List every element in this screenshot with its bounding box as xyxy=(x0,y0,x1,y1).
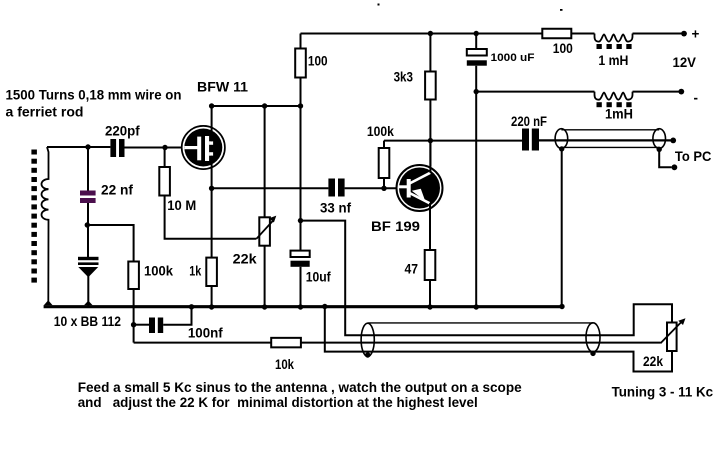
wire top supply rail left segment xyxy=(301,33,543,35)
varactor diode D1 capacitor plate 1 xyxy=(78,257,99,260)
capacitor C5 10uf bottom plate xyxy=(291,261,310,267)
wire R4 bottom to drain rail xyxy=(300,78,302,107)
wire minus rail left segment xyxy=(476,91,594,93)
svg-text:22k: 22k xyxy=(233,251,257,267)
wire top supply rail right segment xyxy=(633,33,685,35)
coax1 left end ellipse xyxy=(555,129,568,149)
node ground at antenna coil (fillet) xyxy=(44,300,53,305)
inductor L2 1 mH (plus lead choke) xyxy=(595,34,633,42)
svg-text:Feed a small 5 Kc sinus to the: Feed a small 5 Kc sinus to the antenna ,… xyxy=(78,379,522,395)
wire C3 to ground rail riser xyxy=(163,307,191,325)
ferrite rod (dashed bar) xyxy=(31,150,37,155)
wire antenna node down to C2 xyxy=(87,147,89,191)
transistor Q2 BF 199 emitter stroke (white) xyxy=(410,193,430,203)
coax2 right end ellipse xyxy=(586,323,600,352)
svg-text:22k: 22k xyxy=(643,353,663,369)
svg-text:Tuning 3 - 11 Kc: Tuning 3 - 11 Kc xyxy=(612,383,714,399)
node antenna top / C2 branch xyxy=(85,144,90,149)
wire top rail down to R6 xyxy=(429,34,431,72)
trimmer RV2 22k tuning pot body xyxy=(667,323,677,352)
transistor Q1 BFW 11 channel bar (white) xyxy=(205,136,209,161)
svg-text:1 mH: 1 mH xyxy=(598,52,628,68)
node minus rail at C6 branch xyxy=(474,89,479,94)
node tap line / 10uf top xyxy=(298,218,303,223)
transistor Q1 BFW 11 drain stub (white) xyxy=(209,141,213,145)
wire gate node down to R1 xyxy=(164,148,166,168)
wire R3 bottom to ground rail xyxy=(211,286,213,307)
resistor R1 10 M (gate leak) xyxy=(159,167,170,196)
speck artifact 1 xyxy=(378,4,380,6)
capacitor C1 220pf right plate xyxy=(119,139,125,157)
node ground at 10uf xyxy=(298,304,303,309)
wire R1 bottom to trimmer wiper xyxy=(165,196,257,239)
transistor Q2 BF 199 collector stroke (white) xyxy=(410,173,431,184)
coax1 shield top line xyxy=(561,129,659,131)
resistor R2 100k (varactor bias bleed) xyxy=(128,262,139,290)
node drain rail at R4 xyxy=(298,103,303,108)
node coax1 right shield xyxy=(657,147,662,152)
svg-text:220pf: 220pf xyxy=(105,123,140,139)
node top rail at 3k3 branch xyxy=(428,31,433,36)
capacitor C4 33 nf right plate xyxy=(338,179,345,197)
coax2 shield bottom line / ground into tuning box xyxy=(325,307,672,372)
wire R5 top to collector feed line xyxy=(383,141,385,148)
svg-text:100: 100 xyxy=(308,53,328,69)
wire RV1 bottom to ground rail xyxy=(264,246,266,307)
transistor Q1 BFW 11 body disk xyxy=(184,129,222,167)
node ground at R7 xyxy=(427,304,432,309)
wire BFW11 drain rail xyxy=(212,105,301,107)
transistor Q2 BF 199 body disk xyxy=(399,168,440,209)
trimmer RV1 wiper arrowhead xyxy=(269,216,276,223)
wire R7 bottom to ground rail xyxy=(429,280,431,307)
node Q1 source / R3 top xyxy=(209,186,214,191)
node drain rail at trimmer branch xyxy=(262,103,267,108)
inductor L3 dashed core xyxy=(597,102,602,107)
capacitor C1 220pf left plate xyxy=(110,139,116,157)
capacitor C2 22 nf bottom plate xyxy=(80,198,96,203)
wire minus rail right segment xyxy=(633,91,682,93)
speck artifact 2 xyxy=(560,9,563,11)
node ground rail at 100nf riser xyxy=(189,304,194,309)
svg-text:12V: 12V xyxy=(673,54,697,70)
resistor R9 10k (feedback to tuning pot) xyxy=(271,338,301,348)
wire antenna top to 220pf xyxy=(47,146,110,148)
varactor diode D1 capacitor plate 2 xyxy=(78,262,99,265)
transistor Q1 BFW 11 outer circle xyxy=(182,126,225,169)
wire varactor node down to D1 xyxy=(87,225,89,257)
node ground at R3 xyxy=(209,304,214,309)
antenna coil L1 1500 turns xyxy=(41,147,48,305)
svg-text:1500 Turns 0,18 mm wire on: 1500 Turns 0,18 mm wire on xyxy=(6,87,182,103)
capacitor C7 220 nF left plate xyxy=(522,129,529,151)
wire Q1 drain lead xyxy=(211,106,213,141)
svg-text:BFW 11: BFW 11 xyxy=(197,79,248,95)
node ground rail right end xyxy=(559,304,564,309)
trimmer RV1 22k body xyxy=(259,217,270,245)
resistor R3 1k (source resistor) xyxy=(206,258,217,286)
capacitor C6 1000 uF negative plate xyxy=(467,60,487,65)
wire from top rail to C6 xyxy=(475,34,477,50)
capacitor C4 33 nf left plate xyxy=(328,179,335,197)
wire varactor node to 100k left xyxy=(88,225,134,262)
node top rail at C6 xyxy=(474,31,479,36)
transistor Q2 BF 199 base lead (white) xyxy=(399,185,407,188)
capacitor C7 220 nF right plate xyxy=(532,129,539,151)
svg-text:100k: 100k xyxy=(367,123,394,139)
capacitor C6 1000 uF positive plate xyxy=(467,49,487,56)
resistor R5 100k (base bias) xyxy=(379,148,390,178)
node 100nf left xyxy=(131,322,136,327)
capacitor C3 100nf right plate xyxy=(158,318,163,334)
svg-text:10k: 10k xyxy=(275,356,294,372)
wire top supply rail mid segment xyxy=(571,33,594,35)
coax1 right end ellipse xyxy=(653,129,666,149)
wire tap to coax2 inner 1 and tuning box top xyxy=(301,221,673,336)
terminal plus 12V xyxy=(681,31,687,37)
wire coax1 right shield to PC ground xyxy=(659,149,671,167)
svg-text:220 nF: 220 nF xyxy=(511,113,547,129)
capacitor C2 22 nf top plate xyxy=(80,191,96,196)
wire base node up to R5 xyxy=(383,178,385,188)
svg-text:10 x BB 112: 10 x BB 112 xyxy=(54,313,121,329)
resistor R7 47 (emitter) xyxy=(425,250,436,280)
svg-text:1000 uF: 1000 uF xyxy=(491,52,535,64)
wire from C6 down to ground rail xyxy=(475,66,477,307)
node ground at RV1 xyxy=(262,304,267,309)
wire R2 bottom through rail to 100nf node xyxy=(133,289,135,343)
transistor Q1 BFW 11 source stub (white) xyxy=(209,152,213,156)
wire Q2 emitter lead xyxy=(429,203,431,250)
node ground at varactor (fillet) xyxy=(84,301,93,306)
wire Q1 source down to R3 xyxy=(211,188,213,257)
wire 100nf node to 10k xyxy=(134,342,272,344)
wire 10uf top lead xyxy=(300,221,302,251)
wire Q1 source lead xyxy=(211,156,213,189)
wire drain rail down to RV1 top xyxy=(264,106,266,217)
svg-text:10uf: 10uf xyxy=(306,269,331,285)
wire ground rail xyxy=(44,305,562,308)
node ground at C6 line xyxy=(474,304,479,309)
svg-text:To PC: To PC xyxy=(675,148,712,164)
transistor Q2 BF 199 emitter arrowhead (white) xyxy=(412,189,426,202)
transistor Q1 BFW 11 gate lead (white) xyxy=(185,146,198,149)
node coax2 right shield xyxy=(590,351,595,356)
resistor R4 100 (BFW11 drain load) xyxy=(295,49,306,78)
wire 100nf node to C3 xyxy=(134,324,149,326)
terminal To PC signal xyxy=(670,138,676,144)
transistor Q1 BFW 11 gate bar (white) xyxy=(197,137,201,161)
wire top rail corner down to R4 xyxy=(300,34,302,49)
node varactor / 100k junction xyxy=(85,222,90,227)
wire C2 to varactor node xyxy=(87,203,89,225)
node Q2 base / R5 bottom xyxy=(381,186,386,191)
svg-text:47: 47 xyxy=(405,261,419,277)
trimmer RV1 wiper arrow diagonal xyxy=(256,220,273,239)
svg-text:a ferriet rod: a ferriet rod xyxy=(6,104,84,120)
svg-text:+: + xyxy=(692,27,700,42)
resistor R6 3k3 (BF199 collector load) xyxy=(425,72,436,100)
wire D1 to ground rail xyxy=(87,276,89,307)
inductor L2 dashed core xyxy=(597,44,602,49)
wire R5 to Q2 collector to C7 xyxy=(384,140,523,142)
resistor R8 100 (supply filter) xyxy=(542,29,571,39)
coax2 left end ellipse xyxy=(361,323,374,356)
svg-text:10 M: 10 M xyxy=(167,197,196,213)
terminal To PC ground xyxy=(672,164,678,170)
svg-text:1k: 1k xyxy=(189,263,201,279)
svg-text:100k: 100k xyxy=(144,262,173,278)
inductor L3 1mH (minus lead choke) xyxy=(595,92,633,100)
varactor diode D1 triangle xyxy=(78,267,98,277)
wire Q1 source row to C4 xyxy=(212,187,329,189)
transistor Q2 BF 199 outer circle xyxy=(397,165,443,211)
node coax1 left shield xyxy=(559,146,564,151)
wire R6 bottom to BF199 collector xyxy=(429,100,431,167)
terminal minus 12V xyxy=(678,89,684,95)
wire drain rail down the tap line xyxy=(300,106,302,221)
capacitor C5 10uf top plate xyxy=(291,251,310,257)
wire C4 to Q2 base xyxy=(345,187,398,189)
svg-text:and adjust the 22 K for min: and adjust the 22 K for minimal distorti… xyxy=(78,394,478,410)
node coax2 left shield xyxy=(365,352,370,357)
wire 10uf bottom to ground rail xyxy=(300,267,302,307)
node drain rail left at BFW11 drain xyxy=(209,103,214,108)
wire coax1 left shield to ground rail end xyxy=(561,149,563,307)
wire 10k to tuning pot wiper (coax inner 2) xyxy=(301,342,661,344)
wire 220pf to BFW11 gate xyxy=(125,147,184,149)
node Q2 collector junction xyxy=(428,138,433,143)
coax2 shield top line xyxy=(368,322,593,324)
svg-text:-: - xyxy=(694,91,699,106)
svg-text:BF 199: BF 199 xyxy=(371,218,420,234)
svg-text:100: 100 xyxy=(553,40,573,56)
trimmer RV2 wiper diagonal xyxy=(661,321,683,344)
trimmer RV2 wiper arrowhead xyxy=(678,318,685,325)
capacitor C3 100nf left plate xyxy=(149,318,155,334)
node ground at coax2 shield riser xyxy=(322,304,327,309)
wire C7 to coax1 centre conductor xyxy=(539,139,671,141)
svg-text:1mH: 1mH xyxy=(605,105,633,121)
coax1 shield bottom line xyxy=(561,146,659,148)
wire Q2 collector lead xyxy=(429,141,431,173)
svg-text:3k3: 3k3 xyxy=(394,69,414,85)
svg-text:100nf: 100nf xyxy=(188,325,223,341)
node gate / 10M top xyxy=(162,145,167,150)
svg-text:33 nf: 33 nf xyxy=(320,200,351,216)
transistor Q2 BF 199 base bar (white) xyxy=(407,179,411,198)
svg-text:22 nf: 22 nf xyxy=(101,181,133,197)
